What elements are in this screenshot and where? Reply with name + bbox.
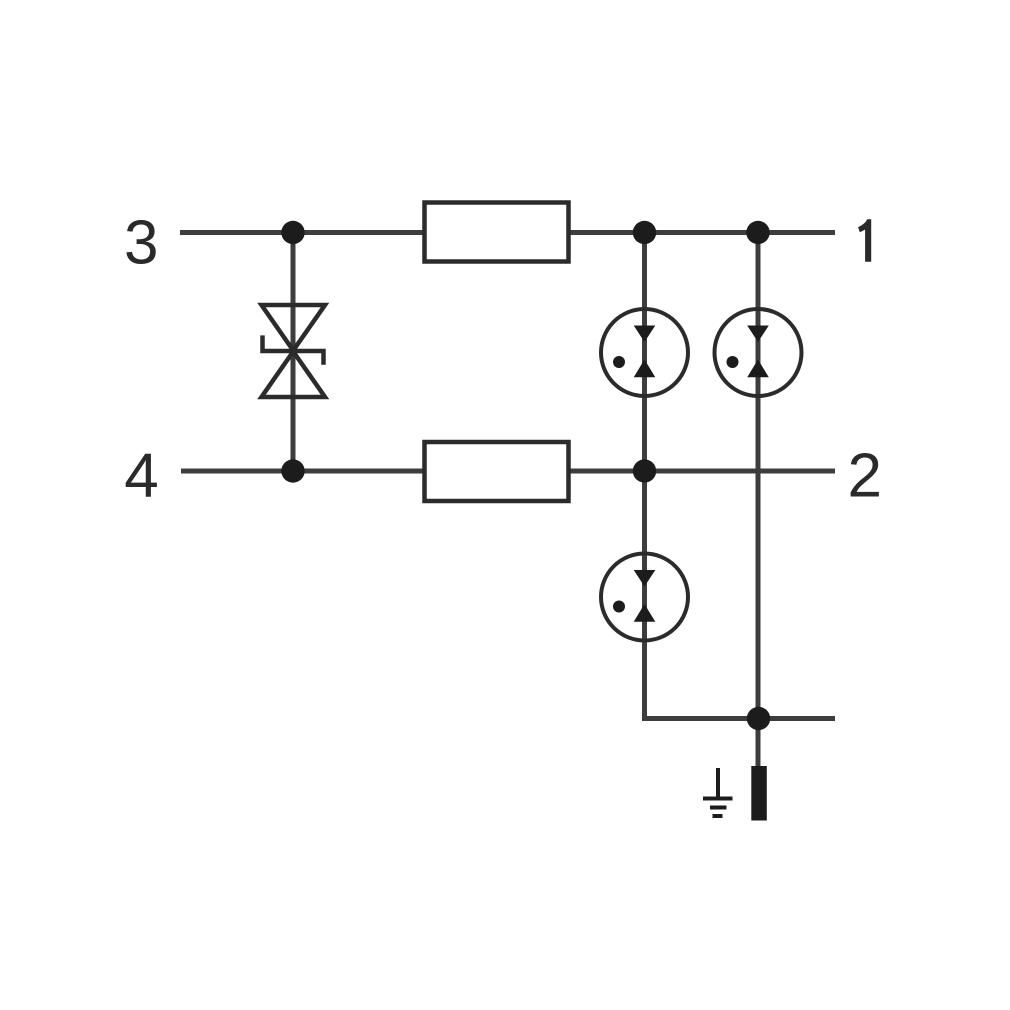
PE terminal bar bbox=[751, 766, 767, 821]
junction dot node 1b bbox=[746, 221, 769, 244]
ground symbol bbox=[703, 768, 733, 816]
wire bottom line (terminal 4 to terminal 2) bbox=[181, 469, 835, 474]
junction dot node 1a bbox=[633, 221, 656, 244]
svg-text:4: 4 bbox=[124, 442, 158, 511]
suppressor diode lower triangle bbox=[262, 352, 326, 398]
gas discharge tube G3 (lower) bbox=[601, 554, 688, 641]
resistor lower (decoupling element) bbox=[425, 442, 569, 501]
wire bottom earth line bbox=[645, 716, 836, 719]
suppressor diode cathode bar with zener hooks bbox=[263, 335, 324, 364]
suppressor diode (bidirectional TVS) upper triangle bbox=[262, 305, 326, 351]
wire top line (terminal 3 to terminal 1) bbox=[180, 230, 835, 235]
junction dot node 4 bbox=[281, 459, 304, 482]
junction dot node 3 bbox=[281, 221, 304, 244]
svg-text:2: 2 bbox=[848, 442, 882, 511]
gas discharge tube G1 (top left) bbox=[601, 309, 688, 396]
wire vertical left arrester branch bbox=[642, 233, 647, 719]
svg-text:3: 3 bbox=[124, 209, 158, 278]
junction dot earth node bbox=[747, 707, 770, 730]
terminal label 1 bbox=[858, 219, 871, 261]
wire vertical through suppressor diode bbox=[291, 233, 296, 472]
resistor upper (decoupling element) bbox=[425, 203, 569, 262]
gas discharge tube G2 (top right) bbox=[715, 309, 802, 396]
wire vertical right arrester branch bbox=[756, 233, 761, 767]
junction dot node 2 bbox=[633, 459, 656, 482]
